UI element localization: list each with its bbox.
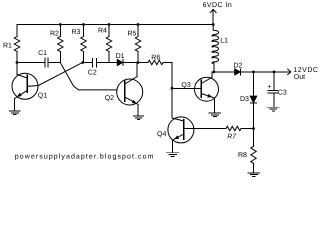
wire node C to C2 bbox=[82, 62, 92, 64]
wire node E to R6 bbox=[138, 62, 148, 64]
svg-text:Q2: Q2 bbox=[105, 95, 114, 102]
diode D2 bbox=[235, 69, 241, 75]
svg-text:R6: R6 bbox=[151, 55, 160, 62]
resistor R5 bbox=[135, 37, 140, 52]
svg-text:D3: D3 bbox=[240, 96, 249, 103]
wire top rail bbox=[17, 24, 213, 26]
svg-text:Out: Out bbox=[294, 74, 305, 81]
node dot 6VDC bbox=[212, 23, 215, 26]
node dot R4 top bbox=[108, 23, 111, 26]
svg-text:R5: R5 bbox=[128, 31, 137, 38]
wire R1 bottom bbox=[16, 52, 18, 63]
svg-text:L1: L1 bbox=[220, 38, 228, 45]
svg-text:C3: C3 bbox=[278, 89, 287, 96]
ground Q4 bbox=[167, 153, 179, 157]
wire C2 to D1 bbox=[97, 62, 118, 64]
node dot R3 top bbox=[82, 23, 85, 26]
svg-text:C1: C1 bbox=[38, 50, 47, 57]
wire R1 top drop bbox=[16, 25, 18, 37]
svg-text:R1: R1 bbox=[3, 43, 12, 50]
resistor R3 bbox=[81, 37, 86, 52]
svg-text:C2: C2 bbox=[88, 70, 97, 77]
node dot A bbox=[16, 61, 19, 64]
wire diagonal node B to Q2 base bbox=[60, 63, 117, 90]
ground C3 bbox=[268, 107, 280, 111]
svg-text:R8: R8 bbox=[238, 152, 247, 159]
wire R2 top drop bbox=[59, 25, 61, 37]
capacitor C3 bbox=[268, 90, 278, 92]
wire R5 top drop bbox=[137, 25, 139, 37]
wire D1 to node E bbox=[123, 62, 138, 64]
resistor R1 bbox=[14, 37, 19, 52]
ground Q3 bbox=[209, 113, 221, 117]
wire R8 bottom bbox=[253, 163, 255, 173]
svg-text:D2: D2 bbox=[233, 63, 242, 70]
svg-text:R4: R4 bbox=[98, 28, 107, 35]
svg-text:R7: R7 bbox=[227, 133, 237, 140]
wire R4 bottom bbox=[108, 52, 110, 63]
node dot Q3 base bbox=[171, 87, 174, 90]
wire Q4 collector to R7 bbox=[184, 128, 226, 130]
ground Q2 bbox=[133, 116, 143, 120]
wire C3 bottom bbox=[273, 93, 275, 107]
resistor R8 bbox=[251, 146, 256, 163]
resistor R4 bbox=[106, 37, 111, 52]
resistor R2 bbox=[58, 37, 63, 52]
wire diagonal Q1 base to node C bbox=[28, 63, 82, 87]
wire R3 top drop bbox=[83, 25, 85, 37]
node dot C bbox=[81, 61, 84, 64]
wire Q3 base stub bbox=[172, 87, 201, 89]
svg-text:powersupplyadapter.blogspot.co: powersupplyadapter.blogspot.com bbox=[15, 153, 155, 161]
transistor Q3 bbox=[195, 72, 219, 113]
svg-text:Q3: Q3 bbox=[181, 82, 190, 89]
wire 6VDC arrow bbox=[212, 10, 214, 25]
wire node F to R8 bbox=[253, 129, 255, 147]
node dot E bbox=[137, 61, 140, 64]
wire C1 right to node B corner bbox=[48, 62, 61, 64]
node dot C3 top bbox=[273, 71, 276, 74]
transistor Q4 bbox=[168, 117, 194, 153]
arrowhead 12VDC out bbox=[288, 69, 291, 75]
wire D2 to output bbox=[241, 71, 291, 73]
svg-text:12VDC: 12VDC bbox=[293, 67, 318, 74]
svg-text:+: + bbox=[267, 84, 271, 91]
wire C3 drop bbox=[273, 72, 275, 91]
svg-text:R3: R3 bbox=[72, 29, 81, 36]
svg-text:6VDC In: 6VDC In bbox=[203, 2, 233, 9]
wire R7 to node F bbox=[241, 128, 254, 130]
svg-text:D1: D1 bbox=[116, 53, 125, 60]
transistor Q1 bbox=[12, 63, 38, 111]
svg-text:Q1: Q1 bbox=[38, 93, 47, 100]
node dot L1 bottom bbox=[213, 71, 216, 74]
node dot D3 top bbox=[252, 71, 255, 74]
node dot R5 top bbox=[137, 23, 140, 26]
wire L1 bottom bbox=[213, 63, 215, 72]
svg-text:Q4: Q4 bbox=[157, 131, 166, 138]
diode D1 bbox=[117, 60, 122, 66]
arrowhead 6VDC bbox=[210, 9, 216, 12]
node dot R2 top bbox=[59, 23, 62, 26]
wire D3 drop bbox=[253, 72, 255, 96]
capacitor C1 bbox=[44, 58, 46, 67]
wire R2 bottom bbox=[59, 52, 61, 63]
ground R8 bbox=[248, 173, 260, 177]
transistor Q2 bbox=[117, 63, 143, 117]
wire R3 bottom bbox=[83, 52, 85, 63]
wire R5 bottom bbox=[137, 52, 139, 63]
capacitor C2 bbox=[92, 59, 94, 68]
wire R6 right corner down bbox=[164, 63, 173, 119]
resistor R7 bbox=[226, 126, 241, 130]
node dot F bbox=[252, 127, 255, 130]
ground Q1 bbox=[10, 111, 21, 115]
wire node A horizontal bbox=[17, 62, 45, 64]
resistor R6 bbox=[148, 60, 163, 64]
inductor L1 bbox=[212, 25, 219, 64]
wire R4 top drop bbox=[108, 25, 110, 37]
diode D3 bbox=[250, 96, 256, 102]
wire D3 to node F bbox=[253, 103, 255, 129]
svg-text:R2: R2 bbox=[50, 31, 59, 38]
wire Q3 collector node to D2 bbox=[212, 71, 235, 73]
